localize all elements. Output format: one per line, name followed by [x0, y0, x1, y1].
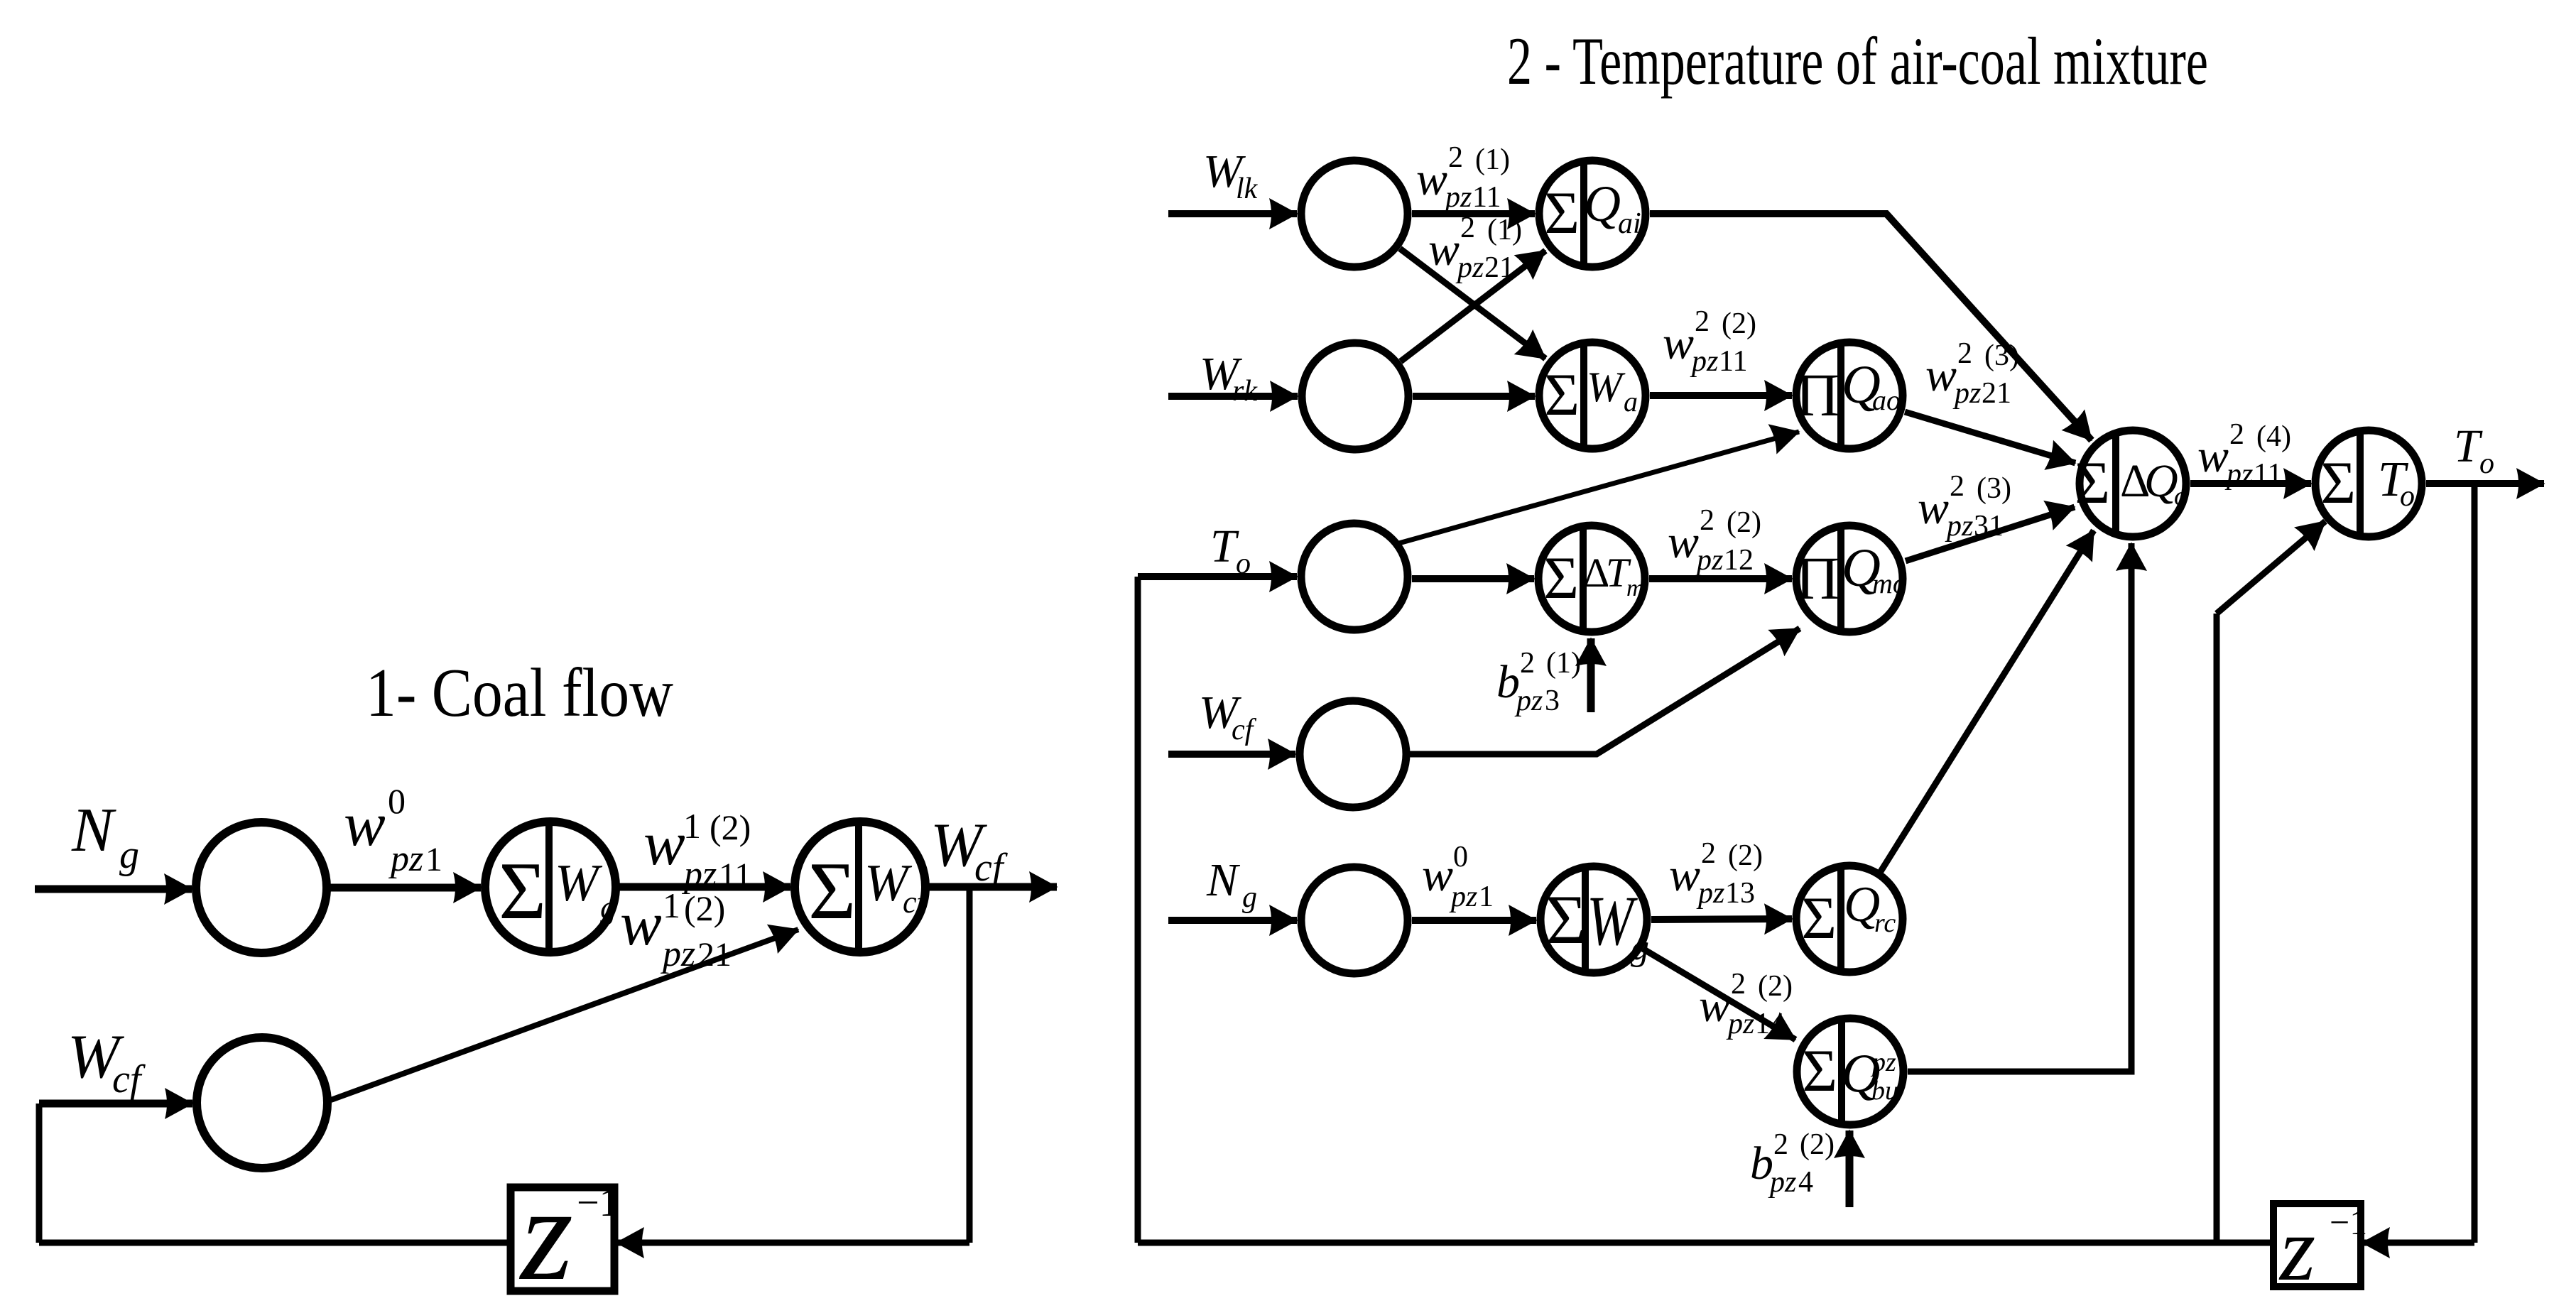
- svg-text:(2): (2): [1758, 970, 1793, 1003]
- svg-text:w: w: [620, 890, 662, 959]
- svg-text:g: g: [1631, 927, 1649, 968]
- svg-text:Σ: Σ: [1545, 180, 1580, 246]
- svg-text:o: o: [2400, 480, 2415, 513]
- svg-text:2: 2: [1460, 212, 1475, 244]
- svg-text:m: m: [1626, 575, 1644, 601]
- svg-text:N: N: [1206, 854, 1241, 906]
- svg-text:w: w: [1699, 980, 1730, 1032]
- svg-text:Π: Π: [1795, 361, 1839, 429]
- svg-text:pz: pz: [1695, 544, 1723, 577]
- svg-text:11: 11: [1472, 181, 1501, 214]
- svg-text:pz: pz: [388, 839, 423, 879]
- svg-text:1- Coal flow: 1- Coal flow: [366, 655, 673, 731]
- svg-text:2: 2: [1731, 968, 1746, 1001]
- svg-text:2: 2: [1957, 337, 1972, 370]
- svg-text:(1): (1): [1475, 143, 1510, 176]
- svg-text:(1): (1): [1487, 214, 1522, 246]
- svg-text:2: 2: [1520, 647, 1535, 680]
- svg-text:Σ: Σ: [1545, 881, 1587, 959]
- svg-text:mo: mo: [1872, 567, 1907, 599]
- svg-text:z: z: [518, 1160, 573, 1309]
- svg-text:pz: pz: [1696, 877, 1724, 910]
- svg-text:w: w: [1663, 317, 1694, 369]
- svg-text:w: w: [1668, 516, 1699, 568]
- svg-text:w: w: [1925, 349, 1957, 401]
- svg-text:0: 0: [388, 781, 406, 821]
- svg-text:w: w: [344, 790, 386, 859]
- svg-text:Π: Π: [1795, 544, 1839, 612]
- svg-text:Q: Q: [1584, 175, 1621, 232]
- svg-text:T: T: [1210, 521, 1239, 572]
- svg-text:(1): (1): [1546, 647, 1581, 680]
- svg-text:2: 2: [1700, 504, 1714, 537]
- svg-text:−1: −1: [577, 1181, 619, 1225]
- svg-text:3: 3: [1545, 685, 1560, 717]
- svg-text:(2): (2): [1722, 307, 1756, 340]
- svg-text:(2): (2): [684, 888, 725, 928]
- svg-text:w: w: [1669, 849, 1700, 901]
- svg-text:z: z: [2278, 1198, 2315, 1300]
- svg-text:1: 1: [425, 841, 442, 878]
- svg-text:0: 0: [1453, 841, 1468, 873]
- svg-text:Σ: Σ: [1545, 361, 1580, 428]
- svg-text:pz: pz: [1726, 1008, 1754, 1040]
- svg-text:g: g: [119, 833, 139, 877]
- svg-text:ao: ao: [1872, 384, 1901, 416]
- svg-text:Σ: Σ: [1802, 885, 1837, 952]
- svg-text:(4): (4): [2256, 420, 2291, 453]
- svg-text:W: W: [555, 854, 603, 912]
- svg-text:rk: rk: [1232, 375, 1258, 408]
- svg-text:2: 2: [1773, 1128, 1788, 1161]
- svg-text:2: 2: [2229, 418, 2244, 451]
- svg-text:13: 13: [1725, 877, 1755, 910]
- svg-text:(2): (2): [710, 807, 751, 847]
- svg-text:31: 31: [1974, 510, 2004, 543]
- svg-text:ai: ai: [1618, 207, 1641, 240]
- svg-text:pz: pz: [2224, 458, 2253, 491]
- svg-text:W: W: [1587, 364, 1626, 410]
- svg-text:Σ: Σ: [499, 846, 546, 936]
- svg-text:(2): (2): [1727, 506, 1761, 539]
- svg-text:w: w: [2197, 430, 2229, 482]
- svg-text:rc: rc: [1874, 908, 1896, 938]
- svg-text:pz: pz: [1952, 377, 1981, 410]
- svg-text:2: 2: [1695, 305, 1710, 338]
- svg-text:2: 2: [1701, 837, 1716, 870]
- svg-text:Σ: Σ: [1544, 545, 1579, 611]
- svg-text:−1: −1: [2330, 1202, 2367, 1242]
- svg-text:21: 21: [1982, 377, 2011, 410]
- svg-text:pz: pz: [1443, 181, 1472, 214]
- svg-text:(3): (3): [1984, 339, 2019, 372]
- svg-text:1: 1: [1479, 881, 1494, 913]
- svg-text:2 - Temperature of air-coal mi: 2 - Temperature of air-coal mixture: [1507, 23, 2208, 99]
- svg-text:o: o: [1236, 547, 1251, 580]
- svg-text:w: w: [1918, 482, 1949, 534]
- svg-text:1: 1: [663, 886, 680, 925]
- svg-text:Σ: Σ: [2075, 450, 2110, 516]
- svg-text:bu: bu: [1871, 1076, 1898, 1106]
- svg-text:w: w: [1428, 224, 1460, 276]
- svg-text:Q: Q: [2144, 455, 2178, 507]
- svg-text:g: g: [1242, 881, 1257, 914]
- svg-text:(3): (3): [1977, 472, 2011, 505]
- svg-text:g: g: [600, 889, 616, 925]
- svg-text:pz: pz: [1870, 1047, 1896, 1077]
- svg-text:2: 2: [1950, 470, 1964, 503]
- svg-text:21: 21: [1484, 251, 1514, 284]
- svg-text:lk: lk: [1236, 173, 1259, 205]
- svg-text:11: 11: [2254, 458, 2282, 491]
- svg-text:11: 11: [1719, 345, 1747, 378]
- svg-text:(2): (2): [1728, 839, 1763, 872]
- svg-text:pz: pz: [1690, 345, 1718, 378]
- svg-text:12: 12: [1724, 544, 1754, 577]
- svg-text:pz: pz: [1768, 1166, 1796, 1199]
- svg-text:pz: pz: [660, 934, 695, 974]
- svg-text:N: N: [71, 796, 116, 865]
- svg-text:pz: pz: [1449, 881, 1477, 913]
- svg-text:pz: pz: [1514, 685, 1543, 717]
- svg-text:w: w: [643, 810, 685, 878]
- svg-text:cf: cf: [1232, 714, 1257, 746]
- svg-text:pz: pz: [1945, 510, 1973, 543]
- svg-text:w: w: [1422, 849, 1453, 901]
- svg-text:Σ: Σ: [808, 846, 856, 936]
- svg-text:2: 2: [1448, 141, 1463, 174]
- svg-text:T: T: [2454, 420, 2483, 472]
- svg-text:4: 4: [1798, 1166, 1813, 1199]
- svg-text:Σ: Σ: [2321, 450, 2356, 516]
- svg-text:21: 21: [697, 936, 732, 974]
- svg-text:(2): (2): [1800, 1128, 1835, 1161]
- svg-text:14: 14: [1755, 1008, 1785, 1040]
- svg-text:pz: pz: [1455, 251, 1484, 284]
- svg-text:o: o: [2174, 481, 2188, 511]
- svg-text:Σ: Σ: [1803, 1037, 1837, 1104]
- svg-text:1: 1: [683, 806, 701, 846]
- svg-text:w: w: [1416, 153, 1447, 205]
- svg-text:a: a: [1624, 386, 1638, 418]
- svg-text:o: o: [2479, 447, 2494, 480]
